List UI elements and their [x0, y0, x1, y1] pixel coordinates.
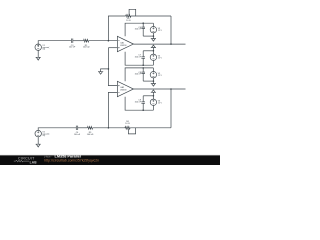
- node junction at input 1: [108, 40, 110, 42]
- connector to V4 ground node: [143, 50, 153, 52]
- op-amp OA2: [117, 81, 133, 96]
- svg-text:1k): 1k): [42, 135, 45, 137]
- connector to V3 ground node: [143, 35, 153, 37]
- capacitor C3: [71, 39, 72, 43]
- svg-text:100 nF: 100 nF: [74, 134, 81, 136]
- svg-text:100 kΩ: 100 kΩ: [83, 47, 90, 49]
- svg-text:100 kΩ: 100 kΩ: [87, 134, 94, 136]
- resistor R4: [125, 127, 130, 130]
- svg-text:100 nF: 100 nF: [135, 56, 142, 58]
- svg-text:100 nF: 100 nF: [135, 74, 142, 76]
- svg-text:12 V: 12 V: [158, 57, 163, 59]
- resistor R2: [126, 15, 131, 18]
- op-amp OA1: [117, 36, 133, 51]
- voltage source V6: [150, 99, 156, 105]
- component labels: [42, 18, 162, 137]
- OA1 V- pin wire and -rail: [125, 52, 153, 65]
- connector to V5 ground node: [143, 80, 153, 82]
- wire ground column to OA1 non-inverting input: [108, 47, 117, 49]
- OA1 V+ pin wire and +rail: [125, 23, 153, 36]
- capacitor C6: [142, 23, 144, 27]
- output wire OA2: [133, 88, 185, 90]
- wire up to feedback row: [108, 16, 125, 41]
- OA2 V- pin wire and -rail: [125, 97, 153, 111]
- output wire OA1: [133, 43, 185, 45]
- svg-text:100 nF: 100 nF: [69, 47, 76, 49]
- capacitor C7: [142, 58, 144, 65]
- svg-text:100 nF: 100 nF: [135, 101, 142, 103]
- ground above V6 (mirrored): [151, 90, 156, 92]
- wire V1 top to input row: [38, 41, 71, 44]
- ground on stub: [98, 72, 103, 75]
- voltage source V2 (bottom input): [35, 130, 41, 136]
- wire right column down to output row: [170, 16, 172, 44]
- junction on ground column: [108, 68, 110, 70]
- wire ground column segment: [108, 48, 117, 86]
- svg-text:12 V: 12 V: [158, 75, 163, 77]
- voltage source V5: [152, 68, 154, 72]
- svg-text:LM358: LM358: [120, 45, 127, 47]
- ground below V3: [151, 39, 156, 42]
- wire stub to ground: [101, 69, 109, 72]
- ground above V4 (mirrored): [151, 45, 156, 47]
- footer bar: [0, 154, 220, 157]
- connector to V6 ground node: [143, 95, 153, 97]
- wire R1 to op-amp: [89, 40, 118, 42]
- capacitor C8: [142, 68, 144, 72]
- svg-text:10 Ω: 10 Ω: [126, 20, 131, 22]
- voltage source V1: [35, 44, 41, 50]
- svg-text:LAB: LAB: [30, 160, 38, 164]
- resistor R1: [84, 39, 89, 42]
- wire up to OA2 inverting input: [108, 92, 117, 127]
- resistor R3: [87, 127, 92, 130]
- capacitor C4: [76, 126, 77, 130]
- capacitor C9: [142, 103, 144, 110]
- CircuitLab logo: [14, 156, 37, 164]
- voltage source V4: [150, 54, 156, 60]
- wire loop over R2: [129, 9, 136, 16]
- ground below V5: [151, 84, 156, 87]
- svg-text:http://circuitlab.com/c/57kz5f: http://circuitlab.com/c/57kz5fyqvc2n: [44, 158, 99, 162]
- wire C3 to R1: [73, 40, 84, 42]
- OA2 V+ pin wire and +rail: [125, 68, 153, 81]
- svg-text:1k): 1k): [42, 49, 45, 51]
- ground below V1: [37, 50, 39, 57]
- wire R2 to right column: [131, 15, 171, 17]
- svg-text:100 nF: 100 nF: [135, 29, 142, 31]
- wire loop under R4: [128, 128, 135, 134]
- svg-text:10 Ω: 10 Ω: [125, 123, 130, 125]
- svg-text:12 V: 12 V: [158, 102, 163, 104]
- voltage source V3: [152, 23, 154, 26]
- wire right column up to OA2 output: [170, 89, 172, 128]
- svg-text:LM358: LM358: [120, 90, 127, 92]
- ground below V2: [37, 137, 39, 144]
- node junction at input 2: [108, 127, 110, 129]
- svg-text:12 V: 12 V: [158, 30, 163, 32]
